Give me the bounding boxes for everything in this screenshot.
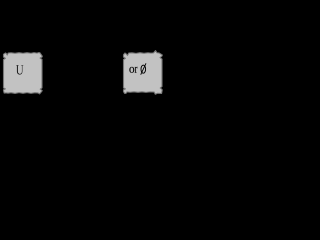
label U: [16, 65, 23, 74]
box "or &#8709;" (torn-edge cell, right): [124, 51, 163, 95]
box U (torn-edge cell, left): [4, 53, 43, 94]
label or : glyph o: [129, 67, 134, 73]
label or : glyph r: [135, 67, 138, 73]
symbol emptyset: [141, 63, 146, 74]
